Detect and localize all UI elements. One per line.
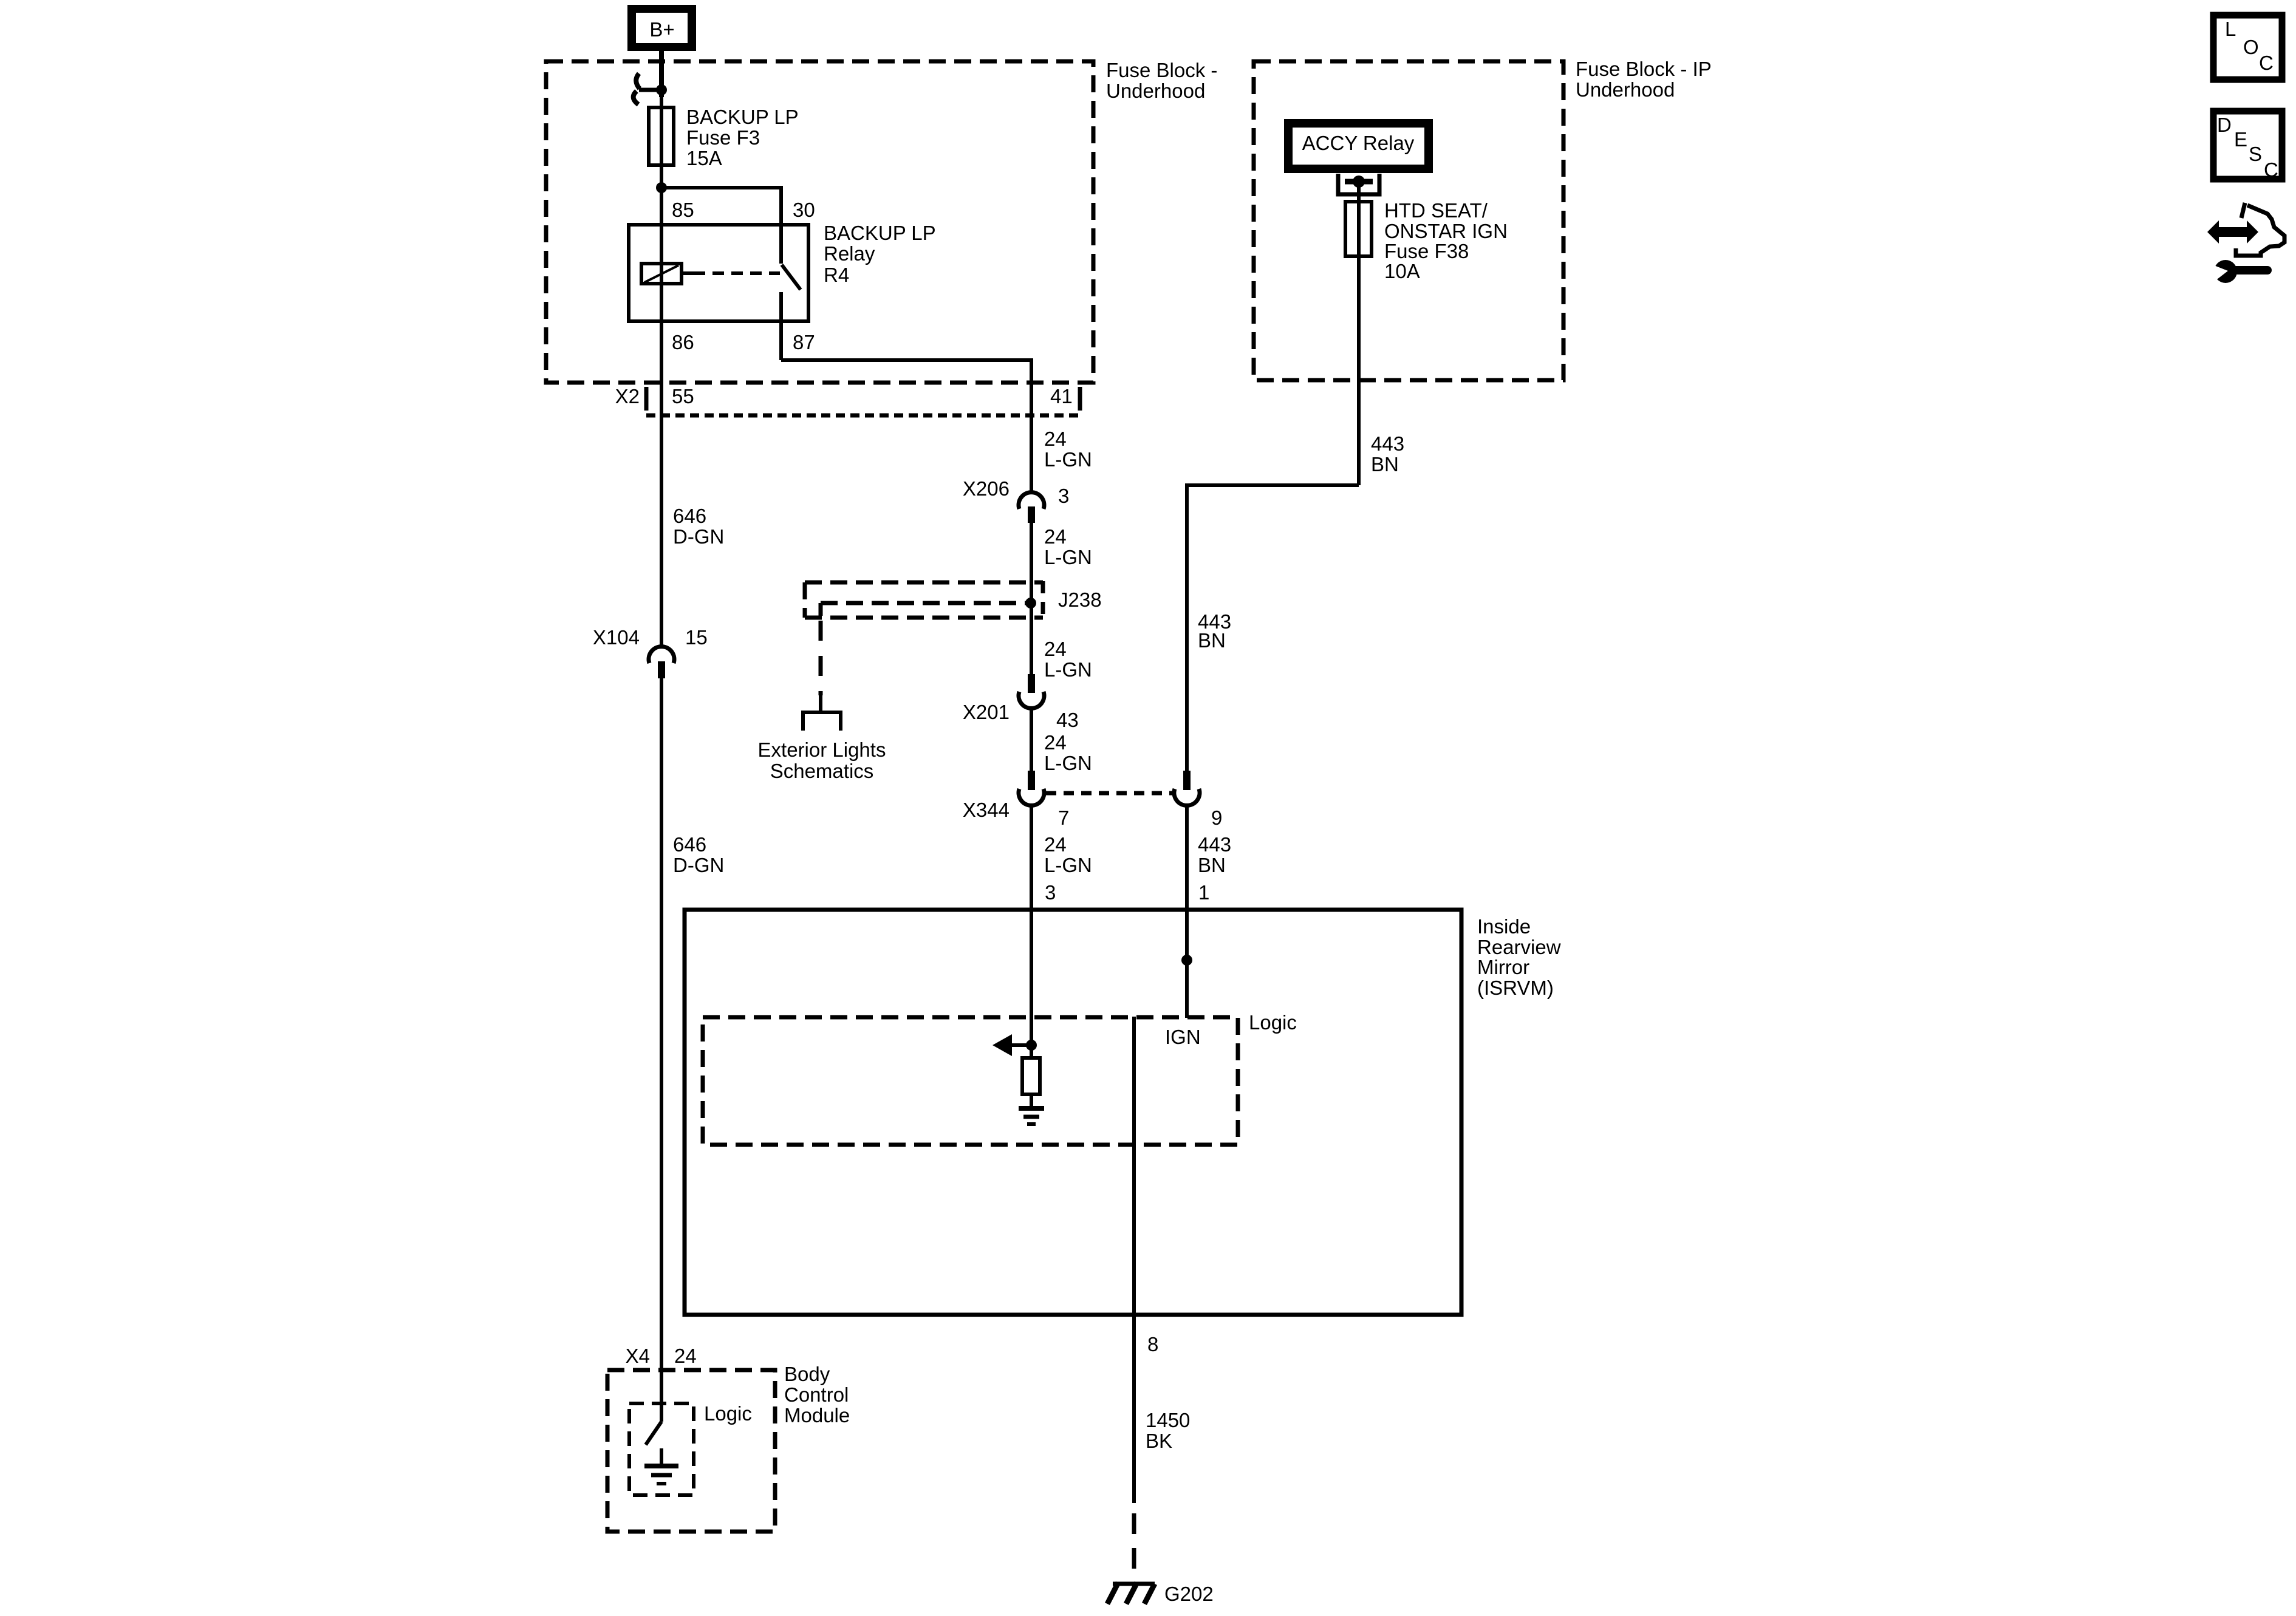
connector X344 pin 9 bbox=[1174, 771, 1222, 829]
svg-text:C: C bbox=[2264, 159, 2278, 181]
wire jog left and down to X344 pin 9 bbox=[1187, 485, 1359, 771]
svg-text:ACCY Relay: ACCY Relay bbox=[1302, 132, 1415, 154]
svg-text:X104: X104 bbox=[593, 626, 640, 649]
LOC icon box bbox=[2213, 15, 2282, 80]
relay switch contact bbox=[781, 225, 801, 360]
svg-text:J238: J238 bbox=[1058, 588, 1102, 611]
junction dot at B+ feed bbox=[656, 84, 667, 95]
svg-text:X2: X2 bbox=[615, 385, 640, 407]
wire label 443 BN (to ISRVM) bbox=[1198, 833, 1231, 904]
body control module dashed box bbox=[607, 1370, 775, 1532]
svg-text:BN: BN bbox=[1198, 854, 1226, 876]
connector X344 pin 7 bbox=[963, 771, 1069, 829]
svg-text:Mirror: Mirror bbox=[1477, 956, 1529, 978]
splice J238 dashed box bbox=[805, 581, 1043, 618]
svg-text:24: 24 bbox=[674, 1345, 697, 1367]
svg-text:B+: B+ bbox=[649, 18, 674, 41]
label Exterior Lights Schematics bbox=[758, 738, 886, 782]
svg-text:86: 86 bbox=[672, 331, 694, 353]
relay coil bbox=[641, 264, 780, 284]
svg-text:55: 55 bbox=[672, 385, 694, 407]
wire X344 pin 9 to ISRVM pin 1 bbox=[1185, 805, 1189, 1018]
svg-text:(ISRVM): (ISRVM) bbox=[1477, 977, 1554, 999]
svg-text:443: 443 bbox=[1198, 833, 1231, 856]
ground in ISRVM logic bbox=[1019, 1108, 1044, 1124]
svg-text:41: 41 bbox=[1050, 385, 1073, 407]
BCM internal ground bbox=[644, 1448, 678, 1484]
svg-text:43: 43 bbox=[1056, 709, 1079, 731]
direction arrow icon bbox=[2207, 203, 2284, 256]
svg-text:30: 30 bbox=[793, 199, 815, 221]
svg-text:24: 24 bbox=[1044, 525, 1067, 548]
label HTD SEAT/ONSTAR IGN Fuse F38 10A bbox=[1384, 199, 1508, 282]
svg-text:ONSTAR IGN: ONSTAR IGN bbox=[1384, 220, 1508, 242]
svg-text:X206: X206 bbox=[963, 477, 1010, 500]
ACCY Relay symbol box bbox=[1284, 119, 1433, 173]
svg-text:HTD SEAT/: HTD SEAT/ bbox=[1384, 199, 1488, 222]
svg-text:24: 24 bbox=[1044, 428, 1067, 450]
svg-text:Underhood: Underhood bbox=[1576, 78, 1675, 101]
junction dot at logic input bbox=[1026, 1040, 1037, 1051]
svg-text:X201: X201 bbox=[963, 701, 1010, 723]
wire X104 down to BCM bbox=[660, 678, 663, 1422]
junction dot J238 bbox=[1025, 598, 1036, 609]
svg-text:Fuse Block -: Fuse Block - bbox=[1106, 59, 1217, 81]
svg-text:L-GN: L-GN bbox=[1044, 448, 1092, 471]
svg-text:D-GN: D-GN bbox=[673, 854, 724, 876]
svg-text:BACKUP LP: BACKUP LP bbox=[824, 222, 936, 244]
svg-text:1450: 1450 bbox=[1146, 1409, 1190, 1431]
label BACKUP LP Fuse F3 15A bbox=[686, 106, 799, 169]
wire label 1450 BK bbox=[1146, 1409, 1190, 1452]
BCM switch blade bbox=[646, 1422, 661, 1445]
svg-text:Schematics: Schematics bbox=[770, 760, 874, 782]
svg-text:85: 85 bbox=[672, 199, 694, 221]
svg-text:24: 24 bbox=[1044, 833, 1067, 856]
svg-text:O: O bbox=[2243, 36, 2259, 58]
wire X206 to X201 bbox=[1030, 523, 1033, 674]
svg-text:15: 15 bbox=[685, 626, 708, 649]
svg-text:Underhood: Underhood bbox=[1106, 80, 1205, 102]
svg-text:24: 24 bbox=[1044, 638, 1067, 660]
svg-text:3: 3 bbox=[1045, 881, 1056, 904]
svg-text:443: 443 bbox=[1371, 432, 1404, 455]
svg-text:8: 8 bbox=[1147, 1333, 1158, 1355]
label Fuse Block - IP Underhood bbox=[1576, 58, 1712, 101]
svg-text:L-GN: L-GN bbox=[1044, 854, 1092, 876]
svg-text:87: 87 bbox=[793, 331, 815, 353]
wire X344 pin 7 to ISRVM pin 3 bbox=[1030, 805, 1033, 1045]
svg-text:Control: Control bbox=[784, 1383, 849, 1406]
connector X4 pin 24 labels bbox=[626, 1345, 697, 1367]
wire label 443 BN (below fuse block IP) bbox=[1371, 432, 1404, 476]
chassis ground G202 bbox=[1107, 1583, 1155, 1604]
svg-text:R4: R4 bbox=[824, 264, 849, 286]
connector X104 pin 15 bbox=[593, 626, 708, 678]
svg-text:G202: G202 bbox=[1164, 1583, 1214, 1605]
connector X2 row bbox=[615, 385, 1080, 415]
label Fuse Block - Underhood bbox=[1106, 59, 1217, 102]
svg-text:15A: 15A bbox=[686, 147, 722, 169]
svg-text:Fuse F3: Fuse F3 bbox=[686, 126, 760, 149]
svg-text:BACKUP LP: BACKUP LP bbox=[686, 106, 799, 128]
svg-text:646: 646 bbox=[673, 505, 706, 527]
dashed connector link X344 bbox=[1046, 791, 1172, 796]
svg-text:BN: BN bbox=[1371, 453, 1399, 476]
wire ACCY relay to fuse F38 and down bbox=[1357, 182, 1361, 485]
svg-text:Logic: Logic bbox=[704, 1402, 752, 1425]
ISRVM logic dashed box bbox=[703, 1017, 1238, 1145]
svg-text:BK: BK bbox=[1146, 1430, 1172, 1452]
svg-text:E: E bbox=[2234, 128, 2247, 151]
fuse block IP dashed box bbox=[1254, 61, 1563, 380]
wire label 24 L-GN (X201 to X344) bbox=[1044, 731, 1092, 774]
wire B+ down to X104 bbox=[659, 51, 664, 97]
svg-text:Inside: Inside bbox=[1477, 915, 1531, 938]
svg-text:BN: BN bbox=[1198, 629, 1226, 652]
wire label 24 L-GN (X206 to J238) bbox=[1044, 525, 1092, 568]
relay R4 box bbox=[629, 225, 808, 321]
junction dot below fuse F3 bbox=[656, 182, 667, 193]
inside rearview mirror ISRVM box bbox=[685, 910, 1461, 1315]
connector X201 pin 43 bbox=[963, 674, 1079, 731]
wrench icon bbox=[2211, 260, 2272, 283]
label Body Control Module bbox=[784, 1363, 850, 1427]
svg-text:Module: Module bbox=[784, 1404, 850, 1427]
svg-text:1: 1 bbox=[1198, 881, 1209, 904]
wire label 646 D-GN lower bbox=[673, 833, 724, 876]
svg-text:C: C bbox=[2259, 52, 2274, 74]
svg-text:3: 3 bbox=[1058, 485, 1069, 507]
junction dot on pin 1 wire bbox=[1181, 955, 1192, 966]
label BACKUP LP Relay R4 bbox=[824, 222, 936, 286]
svg-text:Body: Body bbox=[784, 1363, 830, 1385]
wire branch to relay pin 30 bbox=[661, 188, 781, 225]
svg-text:Fuse Block - IP: Fuse Block - IP bbox=[1576, 58, 1712, 80]
connector clip at B+ feed bbox=[634, 73, 661, 104]
svg-text:D: D bbox=[2217, 114, 2232, 136]
DESC icon box bbox=[2213, 111, 2282, 181]
fuse block underhood dashed box bbox=[546, 61, 1093, 383]
dashed wire to G202 bbox=[1132, 1513, 1136, 1582]
wire label 443 BN (above X344) bbox=[1198, 610, 1231, 652]
svg-text:IGN: IGN bbox=[1165, 1026, 1201, 1048]
wire label 24 L-GN (J238 to X201) bbox=[1044, 638, 1092, 681]
svg-text:X4: X4 bbox=[626, 1345, 650, 1367]
svg-text:Relay: Relay bbox=[824, 242, 875, 265]
svg-text:Fuse F38: Fuse F38 bbox=[1384, 240, 1469, 262]
svg-text:S: S bbox=[2249, 143, 2262, 165]
power symbol B+ bbox=[627, 5, 696, 51]
svg-text:10A: 10A bbox=[1384, 260, 1420, 282]
svg-text:L-GN: L-GN bbox=[1044, 658, 1092, 681]
svg-text:X344: X344 bbox=[963, 799, 1010, 821]
connector X206 pin 3 bbox=[963, 477, 1069, 523]
svg-text:L-GN: L-GN bbox=[1044, 752, 1092, 774]
dashed drop to exterior lights schematics bbox=[801, 621, 842, 731]
fuse F38 10A bbox=[1345, 202, 1372, 256]
wire logic to pin 8 and down bbox=[1132, 1017, 1136, 1503]
wire label 646 D-GN upper bbox=[673, 505, 724, 548]
svg-text:Exterior Lights: Exterior Lights bbox=[758, 738, 886, 761]
svg-text:L-GN: L-GN bbox=[1044, 546, 1092, 568]
BCM logic dashed box bbox=[629, 1403, 694, 1495]
label Inside Rearview Mirror (ISRVM) bbox=[1477, 915, 1561, 999]
svg-text:646: 646 bbox=[673, 833, 706, 856]
fuse F3 15A bbox=[649, 107, 674, 165]
ACCY relay contact bracket bbox=[1338, 174, 1379, 194]
svg-text:9: 9 bbox=[1211, 806, 1222, 829]
svg-text:24: 24 bbox=[1044, 731, 1067, 754]
svg-text:D-GN: D-GN bbox=[673, 525, 724, 548]
wire label 24 L-GN (to ISRVM) bbox=[1044, 833, 1092, 904]
svg-text:Rearview: Rearview bbox=[1477, 936, 1561, 958]
svg-text:L: L bbox=[2225, 18, 2236, 40]
arrow to logic bbox=[993, 1034, 1031, 1056]
wire X201 to X344 bbox=[1030, 707, 1033, 771]
svg-text:7: 7 bbox=[1058, 806, 1069, 829]
wire label 24 L-GN (above X206) bbox=[1044, 428, 1092, 471]
svg-text:Logic: Logic bbox=[1249, 1011, 1297, 1034]
resistor in ISRVM bbox=[1022, 1045, 1040, 1106]
wire relay 87 to X2 pin 41 bbox=[781, 360, 1031, 494]
